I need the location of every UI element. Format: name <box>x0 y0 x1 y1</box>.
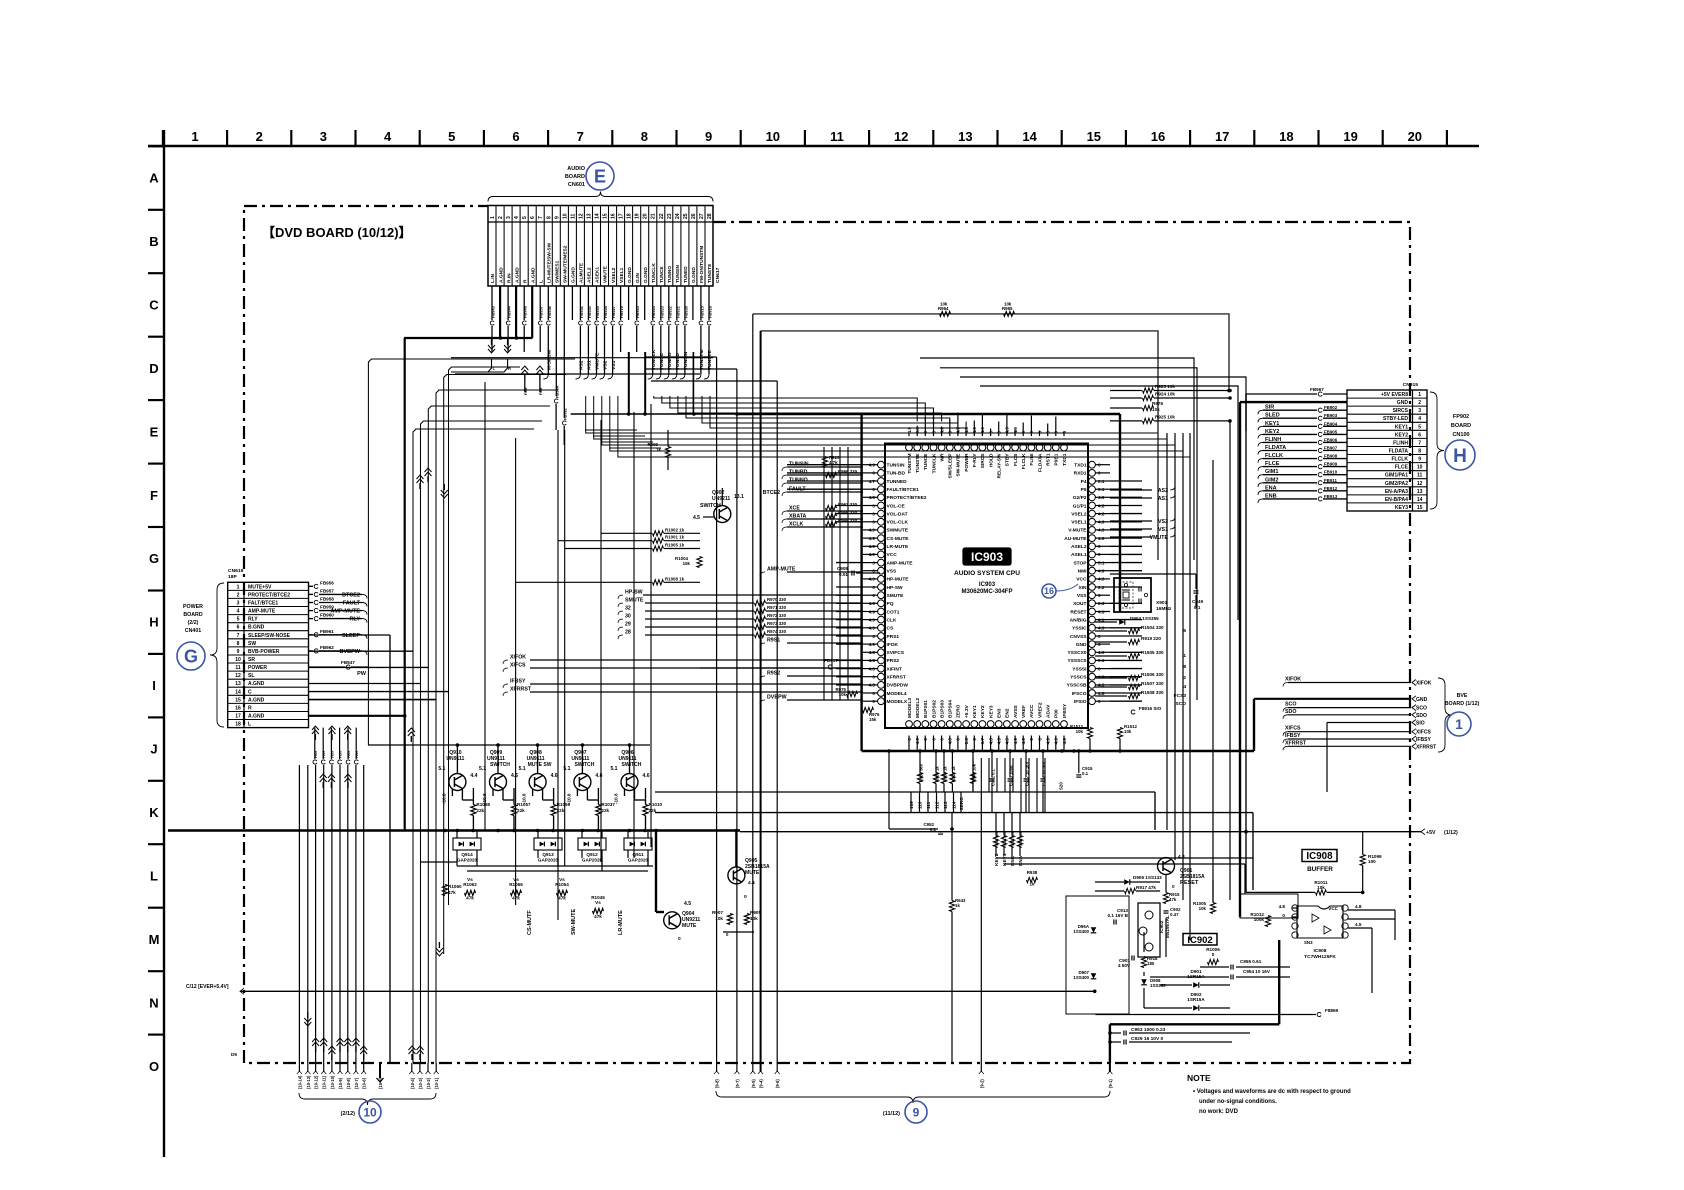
svg-text:UN9111: UN9111 <box>446 756 464 762</box>
svg-text:5.1: 5.1 <box>610 766 617 772</box>
svg-text:8: 8 <box>1183 664 1186 670</box>
svg-text:21: 21 <box>651 213 657 219</box>
svg-text:COT1: COT1 <box>887 609 900 615</box>
svg-text:FM-ON/TUNSTM: FM-ON/TUNSTM <box>699 246 705 283</box>
svg-text:XIFOK: XIFOK <box>1416 681 1432 687</box>
svg-text:E: E <box>150 424 159 439</box>
svg-text:16: 16 <box>611 213 617 219</box>
svg-text:G: G <box>149 551 159 566</box>
svg-text:11: 11 <box>830 129 844 144</box>
svg-text:STBY-LED: STBY-LED <box>1383 416 1408 422</box>
svg-text:16MHz: 16MHz <box>1156 606 1172 612</box>
svg-text:0.1 16V B: 0.1 16V B <box>1108 913 1129 918</box>
svg-text:AVSS: AVSS <box>1013 704 1019 718</box>
svg-text:GIM1/PA1: GIM1/PA1 <box>1385 473 1408 479</box>
svg-text:TUNSIN: TUNSIN <box>675 265 681 283</box>
svg-text:VCC: VCC <box>1076 577 1087 583</box>
svg-text:16: 16 <box>235 705 241 711</box>
svg-text:D: D <box>149 361 158 376</box>
NOTE text block <box>1187 1073 1351 1115</box>
svg-text:SIRCS: SIRCS <box>980 453 986 469</box>
svg-text:10k: 10k <box>940 302 948 307</box>
svg-text:FB9: FB9 <box>330 751 334 758</box>
label BVE BOARD 1/12 <box>1445 693 1480 707</box>
bold VSS wire y414 <box>571 412 1120 751</box>
IC908 wires <box>1240 894 1395 993</box>
svg-text:H: H <box>1453 446 1467 467</box>
svg-text:22k: 22k <box>476 808 484 813</box>
capacitors below IC903 <box>990 751 1094 813</box>
svg-text:(10-11): (10-11) <box>322 1075 327 1089</box>
svg-text:H: H <box>149 615 158 630</box>
IC908 buffer body TC7WH125FK <box>1279 904 1362 960</box>
svg-text:AMP-MUTE: AMP-MUTE <box>248 609 276 615</box>
svg-text:27: 27 <box>699 213 705 219</box>
svg-text:EN-A/PA3: EN-A/PA3 <box>1385 489 1408 495</box>
svg-text:R924 10k: R924 10k <box>1155 392 1175 397</box>
svg-text:R917 47k: R917 47k <box>1136 885 1156 890</box>
svg-text:C916 10 16V: C916 10 16V <box>1042 762 1047 786</box>
resistors R907 R905 10k <box>712 910 761 937</box>
svg-text:1: 1 <box>1183 653 1186 659</box>
svg-text:FP902: FP902 <box>1453 414 1469 420</box>
svg-text:R943 1k: R943 1k <box>951 766 956 782</box>
svg-text:4: 4 <box>237 609 240 615</box>
svg-text:C/12 [EVER+5.4V]: C/12 [EVER+5.4V] <box>186 984 229 990</box>
transistor Q910 <box>438 743 477 804</box>
svg-text:IFOK: IFOK <box>887 642 899 648</box>
svg-text:KEY1: KEY1 <box>972 705 978 718</box>
center vertical wire bundle to connector 9 <box>645 314 777 1063</box>
resistor R915 47k <box>1163 875 1180 904</box>
svg-text:8: 8 <box>546 216 552 219</box>
svg-text:(10-9): (10-9) <box>338 1077 343 1089</box>
capacitor C908 0.01 <box>837 566 880 577</box>
svg-text:FB902: FB902 <box>1324 405 1338 410</box>
svg-text:2: 2 <box>498 216 504 219</box>
svg-text:AS2: AS2 <box>1158 488 1168 494</box>
capacitor C929 16 10V <box>1108 1036 1232 1045</box>
base resistors R1058 R1057 R1059 R1037 R1010 22k <box>471 788 663 831</box>
svg-text:TUNSTE: TUNSTE <box>707 263 713 283</box>
svg-text:10k: 10k <box>1004 302 1012 307</box>
svg-text:TUNNO: TUNNO <box>667 266 673 283</box>
resistors R923 R924 R976 R925 10k <box>1110 384 1232 424</box>
svg-text:13: 13 <box>1417 489 1423 495</box>
numbered wire labels 109-114 ZERO <box>909 792 964 813</box>
svg-text:VOL-DAT: VOL-DAT <box>887 511 908 517</box>
svg-text:FB905: FB905 <box>1324 429 1338 434</box>
svg-text:(10-10): (10-10) <box>330 1075 335 1089</box>
svg-text:KEY2: KEY2 <box>980 705 986 718</box>
svg-text:32: 32 <box>625 606 631 612</box>
svg-text:LR-MUTE: LR-MUTE <box>618 910 624 935</box>
svg-text:FB9: FB9 <box>339 751 343 758</box>
IC902 reset IC body <box>1138 903 1170 957</box>
svg-text:FB98A: FB98A <box>555 385 560 398</box>
svg-text:LR-MUTE: LR-MUTE <box>887 544 910 550</box>
label FP902 BOARD CN100 <box>1451 414 1471 438</box>
svg-text:HP-SW: HP-SW <box>887 585 904 591</box>
svg-text:(9-5): (9-5) <box>751 1079 756 1088</box>
svg-text:NOTE: NOTE <box>1187 1073 1211 1083</box>
svg-text:G.GND: G.GND <box>571 267 577 283</box>
svg-text:G: G <box>184 647 198 667</box>
resistor R1012 100k <box>1250 912 1270 927</box>
svg-text:VSEL1: VSEL1 <box>1071 520 1087 526</box>
svg-text:TUNCE: TUNCE <box>659 266 665 283</box>
svg-text:FB922: FB922 <box>667 305 672 318</box>
svg-text:TUNCLK: TUNCLK <box>651 263 657 283</box>
svg-text:A: A <box>149 171 159 186</box>
DVD board dash-dot outline <box>244 206 1410 1063</box>
svg-text:+5V: +5V <box>1426 830 1436 836</box>
svg-text:TUNNO: TUNNO <box>667 352 673 370</box>
svg-text:22: 22 <box>659 213 665 219</box>
svg-text:SLEEP/SW-NOSE: SLEEP/SW-NOSE <box>248 633 291 639</box>
svg-text:L: L <box>538 280 544 283</box>
svg-text:HP-MUTE: HP-MUTE <box>887 577 910 583</box>
resistor R1045 47k <box>591 895 605 919</box>
svg-text:XVIFCS: XVIFCS <box>887 650 905 656</box>
svg-text:6: 6 <box>512 129 519 144</box>
svg-text:TUNSIN: TUNSIN <box>683 351 689 370</box>
svg-text:TUNCE: TUNCE <box>659 352 665 370</box>
resistors R970-R974 330 <box>643 595 863 638</box>
svg-text:XOUT: XOUT <box>1073 601 1086 607</box>
svg-text:8: 8 <box>237 641 240 647</box>
svg-text:12: 12 <box>1417 481 1423 487</box>
svg-text:C: C <box>248 689 252 695</box>
verticals left of IC903 <box>824 447 848 700</box>
svg-text:TUNSIN: TUNSIN <box>887 463 905 469</box>
svg-text:+5.3V: +5.3V <box>964 704 970 718</box>
svg-text:(9-4): (9-4) <box>759 1079 764 1088</box>
svg-text:22k: 22k <box>601 808 609 813</box>
svg-text:SWITCH: SWITCH <box>700 503 721 509</box>
resistor R1060 47k <box>442 884 462 896</box>
svg-text:17: 17 <box>235 714 241 720</box>
svg-text:SMUTE: SMUTE <box>887 593 905 599</box>
svg-text:25: 25 <box>683 213 689 219</box>
bold mute rail <box>168 829 740 833</box>
svg-text:GIM2/PA2: GIM2/PA2 <box>1385 481 1408 487</box>
svg-text:IFBSY: IFBSY <box>1285 733 1301 739</box>
svg-text:C953 1000 0.23: C953 1000 0.23 <box>1131 1027 1166 1033</box>
svg-text:3: 3 <box>1418 408 1421 414</box>
svg-text:12: 12 <box>235 673 241 679</box>
svg-text:14: 14 <box>1022 129 1037 144</box>
svg-text:29: 29 <box>625 622 631 628</box>
svg-text:47k: 47k <box>558 896 566 901</box>
svg-text:SDO: SDO <box>1416 713 1427 719</box>
svg-text:R: R <box>522 279 528 283</box>
svg-text:CS: CS <box>887 626 894 632</box>
svg-text:SCO: SCO <box>1416 706 1427 712</box>
svg-text:IC902: IC902 <box>1159 920 1164 933</box>
svg-text:1SS400: 1SS400 <box>1073 929 1089 934</box>
svg-text:CS-MUTF: CS-MUTF <box>527 910 533 935</box>
svg-text:(9-1): (9-1) <box>1108 1079 1113 1088</box>
svg-text:NMI: NMI <box>1078 569 1088 575</box>
svg-text:G1/P1: G1/P1 <box>1073 503 1087 509</box>
svg-text:16: 16 <box>1044 586 1054 596</box>
svg-text:GND: GND <box>1397 400 1409 406</box>
svg-text:EN2: EN2 <box>1005 708 1011 718</box>
svg-text:R1058: R1058 <box>476 802 490 807</box>
svg-text:12: 12 <box>894 129 908 144</box>
svg-text:B: B <box>149 234 158 249</box>
ref circle E <box>586 162 614 190</box>
svg-text:R965: R965 <box>1002 306 1013 311</box>
svg-text:FB924: FB924 <box>651 305 656 318</box>
svg-text:24: 24 <box>675 213 681 219</box>
svg-text:BOARD: BOARD <box>565 174 585 180</box>
svg-text:XIFCS: XIFCS <box>1285 726 1301 732</box>
svg-text:(10-14): (10-14) <box>297 1075 302 1089</box>
resistors R966-R969 330 <box>826 469 858 527</box>
svg-text:22k: 22k <box>517 808 525 813</box>
svg-text:G.GND: G.GND <box>643 267 649 283</box>
svg-text:VSEL2: VSEL2 <box>611 267 617 283</box>
svg-text:FB910: FB910 <box>1324 470 1338 475</box>
svg-text:15: 15 <box>235 697 241 703</box>
svg-text:FB956: FB956 <box>547 305 552 318</box>
svg-text:VS1: VS1 <box>1158 527 1168 533</box>
svg-text:IFSCO: IFSCO <box>1072 691 1087 697</box>
svg-text:Q913: Q913 <box>542 852 554 857</box>
IC908 label box <box>1302 850 1337 863</box>
svg-text:POWER: POWER <box>248 665 267 671</box>
svg-text:7: 7 <box>538 216 544 219</box>
svg-text:10k: 10k <box>1076 729 1084 734</box>
resistor R1011 10k <box>1246 880 1364 895</box>
svg-text:R976: R976 <box>1152 401 1163 406</box>
svg-text:4.5: 4.5 <box>1355 922 1362 927</box>
svg-text:PRS1: PRS1 <box>887 634 900 640</box>
svg-text:FB906: FB906 <box>1324 437 1338 442</box>
svg-text:FB961: FB961 <box>320 629 334 634</box>
transistor Q904 UN9211 MUTE <box>656 831 700 943</box>
svg-text:B1PS04: B1PS04 <box>948 700 954 718</box>
svg-text:XIFOK: XIFOK <box>510 655 526 661</box>
svg-text:0: 0 <box>726 932 729 937</box>
svg-text:VS1: VS1 <box>611 360 617 370</box>
svg-text:PROTECT/BTEE2: PROTECT/BTEE2 <box>887 495 927 501</box>
svg-text:L: L <box>248 722 251 728</box>
svg-text:VCC: VCC <box>887 552 898 558</box>
svg-text:F-RLY: F-RLY <box>972 453 978 468</box>
svg-text:A.GND: A.GND <box>248 714 265 720</box>
svg-text:6: 6 <box>530 216 536 219</box>
svg-text:CNVSS: CNVSS <box>1070 634 1087 640</box>
wire bundle from CN617 to bottom left <box>368 359 575 1063</box>
svg-text:Vs: Vs <box>513 877 519 882</box>
svg-text:LR-MUTE/SW-SW: LR-MUTE/SW-SW <box>547 242 553 283</box>
IC903 top pins <box>906 412 1068 479</box>
svg-text:R923 10k: R923 10k <box>1155 384 1175 389</box>
svg-text:P0B1: P0B1 <box>1054 453 1060 465</box>
svg-text:SW: SW <box>248 641 256 647</box>
svg-text:2: 2 <box>237 592 240 598</box>
svg-text:(9-8): (9-8) <box>715 1079 720 1088</box>
svg-text:FB9: FB9 <box>314 751 318 758</box>
svg-text:BOARD: BOARD <box>183 612 203 618</box>
svg-text:YSSCS: YSSCS <box>1070 675 1087 681</box>
svg-text:FAULT/BTCE1: FAULT/BTCE1 <box>887 487 920 493</box>
svg-text:GAP2020: GAP2020 <box>457 858 478 863</box>
transistor Q906 <box>610 743 649 804</box>
svg-text:BTCE2: BTCE2 <box>342 592 360 598</box>
connector CN619 POWER BOARD to G <box>228 582 309 727</box>
svg-text:ASEL2: ASEL2 <box>1071 544 1087 550</box>
svg-text:R1062: R1062 <box>463 882 477 887</box>
svg-text:10k: 10k <box>1124 729 1132 734</box>
svg-text:F8869: F8869 <box>1325 1008 1339 1013</box>
svg-text:R985 1k: R985 1k <box>943 766 948 782</box>
svg-text:R1045: R1045 <box>591 895 605 900</box>
svg-text:(9-7): (9-7) <box>735 1079 740 1088</box>
terminals to connector 10 <box>297 1063 439 1089</box>
svg-text:VOL-CLK: VOL-CLK <box>887 520 909 526</box>
svg-text:SWMUTE: SWMUTE <box>887 528 909 534</box>
resistor R1004 15k <box>675 556 702 568</box>
svg-text:47k: 47k <box>466 896 474 901</box>
svg-text:R9S2: R9S2 <box>767 671 780 677</box>
svg-text:TXD1: TXD1 <box>1062 453 1068 466</box>
svg-text:XIFCS: XIFCS <box>510 663 526 669</box>
resistor R1056 47k <box>509 877 523 901</box>
photocoupler Q911 GAP2020 <box>624 831 652 867</box>
svg-text:(10-6): (10-6) <box>362 1077 367 1089</box>
svg-text:BOARD: BOARD <box>1451 423 1471 429</box>
svg-text:R949 10k: R949 10k <box>972 763 977 782</box>
svg-text:G.GND: G.GND <box>627 267 633 283</box>
svg-text:1: 1 <box>490 216 496 219</box>
svg-text:HOLD: HOLD <box>988 453 994 467</box>
svg-text:XIFINT: XIFINT <box>887 666 902 672</box>
svg-text:MODELX: MODELX <box>887 699 908 705</box>
svg-text:1SR15A: 1SR15A <box>1187 997 1205 1002</box>
svg-text:CS-MUTE: CS-MUTE <box>887 536 910 542</box>
bold GND rail under IC903 <box>862 699 1254 753</box>
svg-text:ADAV: ADAV <box>1046 704 1052 718</box>
svg-text:KEY3: KEY3 <box>988 705 994 718</box>
bold AGND rail from CN617 <box>404 336 532 830</box>
svg-text:A.GND: A.GND <box>248 697 265 703</box>
svg-text:MUTE+5V: MUTE+5V <box>248 584 272 590</box>
svg-text:FB912: FB912 <box>1324 486 1338 491</box>
svg-text:B1PS01: B1PS01 <box>923 700 929 718</box>
svg-text:4: 4 <box>1418 416 1421 422</box>
svg-text:18: 18 <box>1279 129 1293 144</box>
resistor R920 4.7k <box>822 455 840 468</box>
svg-text:FB918: FB918 <box>708 305 713 318</box>
svg-text:16: 16 <box>1151 129 1165 144</box>
svg-text:0: 0 <box>678 936 681 942</box>
svg-text:4.6: 4.6 <box>551 773 558 779</box>
svg-text:M30620MC-304FP: M30620MC-304FP <box>961 589 1012 595</box>
capacitor C952 <box>889 751 954 834</box>
svg-text:ALMUTE: ALMUTE <box>579 262 585 283</box>
resistors below IC903 <box>917 751 976 792</box>
svg-text:EN3: EN3 <box>997 708 1003 718</box>
svg-text:SW-MUTE/MES2: SW-MUTE/MES2 <box>563 245 569 283</box>
svg-text:1: 1 <box>191 129 198 144</box>
svg-text:(10-13): (10-13) <box>306 1075 311 1089</box>
svg-text:VMUTE: VMUTE <box>1150 535 1169 541</box>
svg-text:O: O <box>149 1059 159 1074</box>
svg-text:C908: C908 <box>837 566 848 571</box>
svg-text:FB903: FB903 <box>1324 413 1338 418</box>
svg-text:R1002 1k: R1002 1k <box>665 527 685 532</box>
svg-text:SWITCH: SWITCH <box>490 762 510 768</box>
labels CS-MUTE SW-MUTE LR-MUTE <box>527 909 624 935</box>
svg-text:3: 3 <box>506 216 512 219</box>
svg-text:FB915: FB915 <box>699 305 704 318</box>
IC903 right pins <box>1064 461 1110 705</box>
svg-text:CN401: CN401 <box>185 628 201 634</box>
svg-text:MODEL3: MODEL3 <box>907 698 913 718</box>
svg-text:FB927: FB927 <box>611 305 616 318</box>
svg-text:GAP2020: GAP2020 <box>628 858 649 863</box>
top bus corners right of chip <box>753 314 1248 893</box>
svg-text:(10-2): (10-2) <box>426 1077 431 1089</box>
svg-text:SR: SR <box>248 657 255 663</box>
capacitor C955 0.01 <box>1200 959 1290 970</box>
svg-text:26: 26 <box>691 213 697 219</box>
svg-text:15: 15 <box>1087 129 1101 144</box>
svg-text:AUDIO: AUDIO <box>567 166 585 172</box>
svg-text:AS1: AS1 <box>1158 496 1168 502</box>
svg-text:1: 1 <box>1418 392 1421 398</box>
svg-text:4: 4 <box>384 129 392 144</box>
brace right of CN915 <box>1430 392 1444 509</box>
resistor R1006 0 <box>1206 947 1220 965</box>
svg-text:SW-MUTE: SW-MUTE <box>571 909 577 935</box>
svg-text:FB982: FB982 <box>563 407 568 420</box>
svg-text:R1054: R1054 <box>555 882 569 887</box>
ref circle H <box>1445 440 1475 470</box>
resistor R999 1k <box>648 430 671 470</box>
svg-text:DVBPDW: DVBPDW <box>887 683 909 689</box>
svg-text:VOL-CE: VOL-CE <box>887 503 906 509</box>
svg-text:(9-2): (9-2) <box>979 1079 984 1088</box>
svg-text:CN619: CN619 <box>228 568 244 574</box>
svg-text:MUTE SW: MUTE SW <box>528 762 552 768</box>
svg-text:TUNED: TUNED <box>683 266 689 283</box>
svg-text:VSEL1: VSEL1 <box>619 267 625 283</box>
svg-text:B1PS02: B1PS02 <box>931 700 937 718</box>
svg-text:RXD1: RXD1 <box>1074 471 1087 477</box>
bead F8869 <box>1095 1008 1338 1017</box>
svg-text:1k: 1k <box>1030 882 1035 887</box>
frame border ruler <box>148 129 1479 1157</box>
G connector right side wires to bundle <box>309 635 449 1063</box>
svg-text:under no-signal conditions.: under no-signal conditions. <box>1199 1099 1277 1105</box>
svg-text:MODEL4: MODEL4 <box>887 691 907 697</box>
svg-text:9: 9 <box>1418 457 1421 463</box>
bead F8916 SIO <box>1131 706 1162 714</box>
svg-text:FB958: FB958 <box>320 597 334 602</box>
svg-text:FB904: FB904 <box>1324 421 1338 426</box>
svg-text:FALT/BTCE1: FALT/BTCE1 <box>248 601 278 607</box>
svg-text:V-MUTE: V-MUTE <box>1068 528 1087 534</box>
svg-text:10: 10 <box>363 1105 377 1119</box>
EVER+5.4V line <box>186 984 1096 994</box>
svg-text:4.5: 4.5 <box>693 515 700 521</box>
svg-text:R1505 330: R1505 330 <box>1141 650 1164 655</box>
